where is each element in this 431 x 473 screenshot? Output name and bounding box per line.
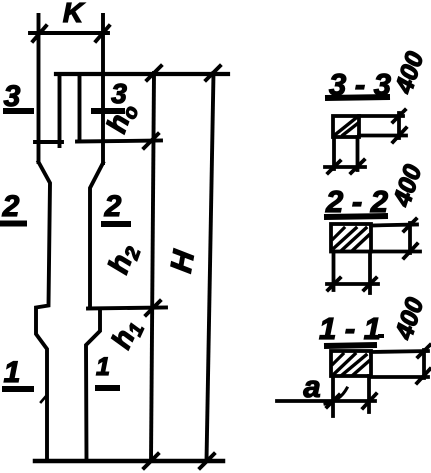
hatched square 1-1 [331,351,371,376]
underline of 1 left [2,386,34,392]
svg-text:400: 400 [390,294,430,343]
underline 1-1 [324,345,377,346]
hatch lines 1-1 [334,354,355,374]
underline of 3 left [3,108,34,114]
bottom extension line 1-1 [371,375,428,379]
svg-text:1: 1 [4,356,21,389]
column outline: left edge top part [37,15,41,162]
svg-text:h1: h1 [105,315,149,355]
slot left vertical [58,76,62,146]
underline 2-2 [324,216,388,217]
tick bottom 400 1-1 [417,369,430,383]
hatched square 3-3 [333,116,359,137]
ledge left branch bottom [35,140,62,144]
bottom extension line 2-2 [371,250,420,254]
svg-text:400: 400 [390,48,430,97]
top extension line 2-2 [371,225,417,226]
left profile: taper and middle edge, console, bottom edge [36,162,50,461]
tick left bottom 2-2 [328,278,340,290]
svg-text:1 - 1: 1 - 1 [319,311,381,346]
tick left a-dim [327,395,339,407]
dimension line a (bottom) [277,399,375,403]
svg-text:K: K [63,0,85,28]
underline of 1 middle [95,385,120,391]
svg-text:400: 400 [388,161,428,210]
tick at h0 bottom [144,134,158,148]
left edge extension down 2-2 [332,252,336,290]
right edge extension down 2-2 [368,252,372,293]
left edge extension down 1-1 [331,376,335,416]
svg-text:2: 2 [2,190,20,223]
svg-text:h2: h2 [103,240,146,279]
hatch lines 3-3 [336,118,356,134]
tick at H-line top [206,66,220,80]
right edge extension down 3-3 [356,137,360,170]
tick bottom 400 2-2 [404,244,417,258]
svg-text:ho: ho [100,99,143,139]
slot right vertical [78,76,82,141]
tick right a-dim [363,394,376,408]
tick top 400 3-3 [393,110,405,122]
underline of 2 middle [101,221,131,227]
dot after 1-1 [378,334,384,338]
svg-text:1: 1 [96,353,110,381]
bottom width dim line 2-2 [327,282,378,286]
tick left bottom 3-3 [328,161,340,173]
hatch lines 2-2 [334,228,356,248]
right step: console vertical and taper to bottom edge [86,310,100,461]
dimension line for H (vertical) [207,73,214,461]
top extension line 1-1 [371,351,428,352]
tick at h1 top [146,301,160,315]
vertical 400 dim line 1-1 [422,350,426,378]
tick top 400 2-2 [404,219,416,231]
hatched square 2-2 [331,224,371,252]
base line [35,459,223,464]
right edge extension down 1-1 [367,376,371,412]
tick at h-line bottom [144,454,158,468]
svg-text:2: 2 [104,190,122,223]
underline of 2 left [0,221,27,227]
column outline: right edge top part [101,15,105,163]
underline of 3 middle [91,108,125,114]
tick bottom 400 3-3 [393,128,406,142]
tick at H-line bottom [200,454,214,468]
top reference line (h0 top, to dim lines) [56,72,228,76]
top extension line [359,114,403,118]
arrow tick left of K line [33,26,46,41]
dimension line K (top) [30,31,108,35]
h1 boundary line (section step level) [88,308,166,309]
bottom width dim line 3-3 [325,165,365,169]
tick right bottom 3-3 [351,160,364,173]
tick at h-line top [147,66,161,80]
dimension line for h0,h2,h1 (vertical) [151,73,154,461]
svg-text:H: H [165,247,201,275]
tick top 400 1-1 [418,345,430,357]
vertical 400 dim line 2-2 [408,223,412,253]
leader arc near a [325,388,347,404]
right profile: taper and middle edge [90,163,103,307]
small tick on left edge at section 1 level [41,395,47,402]
left edge extension down 3-3 [332,137,336,169]
svg-text:a: a [303,369,320,404]
arrow tick right of K line [96,26,109,41]
vertical 400 dim line 3-3 [397,113,401,138]
h0 bottom line (right ledge extended to dim line) [77,141,161,142]
bottom extension line [359,134,406,138]
underline 3-3 [325,97,390,98]
tick right bottom 2-2 [364,278,376,290]
